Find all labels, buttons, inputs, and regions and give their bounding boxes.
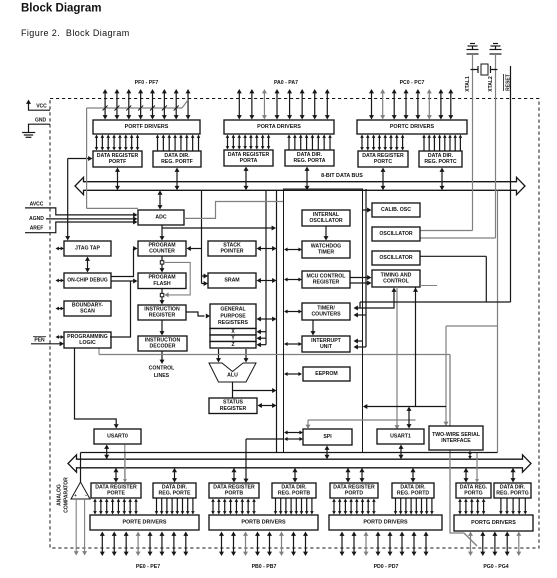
svg-text:PROGRAM: PROGRAM <box>148 242 175 248</box>
svg-text:PORTF: PORTF <box>109 159 127 165</box>
svg-text:LINES: LINES <box>154 373 170 379</box>
svg-text:PD0 - PD7: PD0 - PD7 <box>374 564 399 570</box>
svg-text:REG. PORTB: REG. PORTB <box>278 491 311 497</box>
svg-text:VCC: VCC <box>36 104 47 110</box>
svg-text:OSCILLATOR: OSCILLATOR <box>379 255 412 261</box>
svg-text:DATA REGISTER: DATA REGISTER <box>95 484 137 490</box>
svg-text:TIMING AND: TIMING AND <box>381 272 412 278</box>
svg-text:DATA DIR.: DATA DIR. <box>162 484 188 490</box>
svg-text:FLASH: FLASH <box>153 281 171 287</box>
svg-text:INSTRUCTION: INSTRUCTION <box>145 337 181 343</box>
svg-text:UNIT: UNIT <box>320 344 333 350</box>
svg-text:PF0 - PF7: PF0 - PF7 <box>135 80 159 86</box>
svg-text:DATA DIR.: DATA DIR. <box>297 152 323 158</box>
svg-text:PEN: PEN <box>34 338 45 344</box>
svg-text:INSTRUCTION: INSTRUCTION <box>144 306 180 312</box>
svg-text:PA0 - PA7: PA0 - PA7 <box>274 80 298 86</box>
svg-text:DATA DIR.: DATA DIR. <box>500 484 526 490</box>
svg-text:REG. PORTC: REG. PORTC <box>424 159 457 165</box>
svg-text:ANALOG: ANALOG <box>57 484 63 506</box>
svg-text:DECODER: DECODER <box>150 344 176 350</box>
svg-text:CONTROL: CONTROL <box>383 279 409 285</box>
svg-text:REG. PORTA: REG. PORTA <box>294 158 326 164</box>
svg-text:COUNTERS: COUNTERS <box>311 312 341 318</box>
svg-text:DATA REG.: DATA REG. <box>460 484 488 490</box>
svg-text:USART1: USART1 <box>390 434 411 440</box>
svg-text:SPI: SPI <box>323 434 332 440</box>
svg-text:REG. PORTD: REG. PORTD <box>397 491 430 497</box>
svg-text:PORTB: PORTB <box>225 491 243 497</box>
svg-text:REGISTER: REGISTER <box>313 280 340 286</box>
svg-text:PORTG DRIVERS: PORTG DRIVERS <box>471 520 516 526</box>
svg-text:Block Diagram: Block Diagram <box>21 3 102 15</box>
svg-text:STATUS: STATUS <box>223 400 244 406</box>
svg-text:PORTD: PORTD <box>345 491 363 497</box>
svg-text:DATA DIR.: DATA DIR. <box>281 484 307 490</box>
svg-text:DATA REGISTER: DATA REGISTER <box>228 152 270 158</box>
svg-text:DATA REGISTER: DATA REGISTER <box>213 484 255 490</box>
svg-text:OSCILLATOR: OSCILLATOR <box>379 231 412 237</box>
svg-text:REG. PORTE: REG. PORTE <box>159 491 192 497</box>
svg-text:TIMER/: TIMER/ <box>317 305 335 311</box>
svg-text:INTERFACE: INTERFACE <box>441 438 471 444</box>
svg-text:PURPOSE: PURPOSE <box>220 313 246 319</box>
svg-text:PC0 - PC7: PC0 - PC7 <box>400 80 425 86</box>
svg-text:+: + <box>74 493 77 498</box>
svg-text:REG. PORTF: REG. PORTF <box>161 159 193 165</box>
svg-text:XTAL1: XTAL1 <box>465 76 471 92</box>
svg-text:DATA DIR.: DATA DIR. <box>400 484 426 490</box>
svg-text:-: - <box>85 493 87 499</box>
svg-text:DATA DIR.: DATA DIR. <box>428 153 454 159</box>
svg-text:PE0 - PE7: PE0 - PE7 <box>136 564 160 570</box>
svg-text:OSCILLATOR: OSCILLATOR <box>309 218 342 224</box>
svg-text:BOUNDARY-: BOUNDARY- <box>72 302 103 308</box>
svg-text:PORTC DRIVERS: PORTC DRIVERS <box>390 124 435 130</box>
svg-text:COMPARATOR: COMPARATOR <box>64 477 70 513</box>
svg-text:GENERAL: GENERAL <box>220 306 246 312</box>
svg-text:MCU CONTROL: MCU CONTROL <box>307 273 347 279</box>
svg-text:PROGRAMMING: PROGRAMMING <box>67 334 108 340</box>
svg-text:PORTA DRIVERS: PORTA DRIVERS <box>257 124 301 130</box>
svg-text:PORTF DRIVERS: PORTF DRIVERS <box>125 124 169 130</box>
svg-text:8-BIT DATA BUS: 8-BIT DATA BUS <box>321 173 363 179</box>
svg-text:LOGIC: LOGIC <box>79 340 96 346</box>
svg-text:Z: Z <box>231 342 234 348</box>
svg-text:PROGRAM: PROGRAM <box>148 275 175 281</box>
svg-text:DATA REGISTER: DATA REGISTER <box>97 153 139 159</box>
svg-text:ON-CHIP DEBUG: ON-CHIP DEBUG <box>67 278 108 284</box>
svg-text:PORTE DRIVERS: PORTE DRIVERS <box>122 520 166 526</box>
svg-text:Figure 2. Block Diagram: Figure 2. Block Diagram <box>21 28 130 38</box>
svg-text:PORTC: PORTC <box>374 159 392 165</box>
svg-text:AREF: AREF <box>30 226 44 232</box>
svg-text:TIMER: TIMER <box>318 250 334 256</box>
svg-text:GND: GND <box>35 117 47 123</box>
svg-text:PB0 - PB7: PB0 - PB7 <box>252 564 277 570</box>
svg-text:CONTROL: CONTROL <box>149 366 175 372</box>
svg-text:PORTD DRIVERS: PORTD DRIVERS <box>363 520 408 526</box>
svg-text:AVCC: AVCC <box>30 201 44 207</box>
svg-text:SRAM: SRAM <box>224 278 239 284</box>
svg-text:REG. PORTG: REG. PORTG <box>496 491 529 497</box>
svg-text:STACK: STACK <box>223 242 241 248</box>
svg-text:PORTG: PORTG <box>464 491 482 497</box>
svg-text:INTERNAL: INTERNAL <box>313 212 340 218</box>
svg-text:PG0 - PG4: PG0 - PG4 <box>483 564 508 570</box>
svg-text:ADC: ADC <box>155 215 166 221</box>
svg-text:CALIB. OSC: CALIB. OSC <box>381 207 411 213</box>
svg-text:POINTER: POINTER <box>220 249 243 255</box>
svg-text:INTERRUPT: INTERRUPT <box>311 338 342 344</box>
svg-text:REGISTER: REGISTER <box>220 406 247 412</box>
svg-text:REGISTERS: REGISTERS <box>218 320 249 326</box>
svg-text:AGND: AGND <box>29 216 44 222</box>
svg-text:REGISTER: REGISTER <box>149 313 176 319</box>
svg-text:DATA REGISTER: DATA REGISTER <box>362 153 404 159</box>
svg-text:WATCHDOG: WATCHDOG <box>311 243 341 249</box>
svg-text:DATA REGISTER: DATA REGISTER <box>333 484 375 490</box>
svg-text:PORTA: PORTA <box>240 158 258 164</box>
svg-text:DATA DIR.: DATA DIR. <box>164 153 190 159</box>
svg-text:TWO-WIRE SERIAL: TWO-WIRE SERIAL <box>432 432 481 438</box>
svg-text:EEPROM: EEPROM <box>315 371 337 377</box>
svg-text:ALU: ALU <box>227 373 238 379</box>
svg-text:XTAL2: XTAL2 <box>488 76 494 92</box>
svg-text:PORTB DRIVERS: PORTB DRIVERS <box>241 520 286 526</box>
svg-text:PORTE: PORTE <box>107 491 125 497</box>
svg-text:USART0: USART0 <box>107 434 128 440</box>
svg-text:JTAG TAP: JTAG TAP <box>75 246 100 252</box>
svg-text:COUNTER: COUNTER <box>149 249 175 255</box>
svg-text:SCAN: SCAN <box>80 309 95 315</box>
